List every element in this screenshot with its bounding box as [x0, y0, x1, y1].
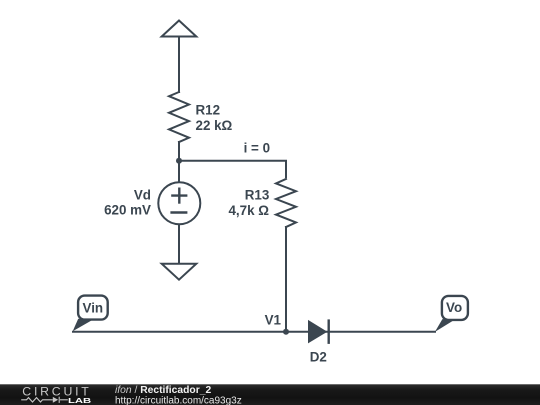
svg-text:ifon / Rectificador_2: ifon / Rectificador_2 [115, 385, 211, 396]
svg-text:V1: V1 [265, 312, 282, 327]
svg-text:http://circuitlab.com/ca93g3z: http://circuitlab.com/ca93g3z [115, 395, 242, 405]
svg-text:22 kΩ: 22 kΩ [196, 118, 233, 133]
svg-text:Vin: Vin [83, 300, 104, 315]
svg-text:Vd: Vd [134, 188, 151, 203]
svg-text:LAB: LAB [68, 396, 92, 405]
svg-text:i = 0: i = 0 [244, 141, 270, 156]
svg-text:620 mV: 620 mV [104, 203, 151, 218]
svg-text:R12: R12 [196, 103, 221, 118]
svg-text:R13: R13 [245, 188, 270, 203]
svg-text:D2: D2 [310, 350, 327, 365]
svg-text:Vo: Vo [446, 300, 462, 315]
svg-text:4,7k Ω: 4,7k Ω [228, 203, 269, 218]
